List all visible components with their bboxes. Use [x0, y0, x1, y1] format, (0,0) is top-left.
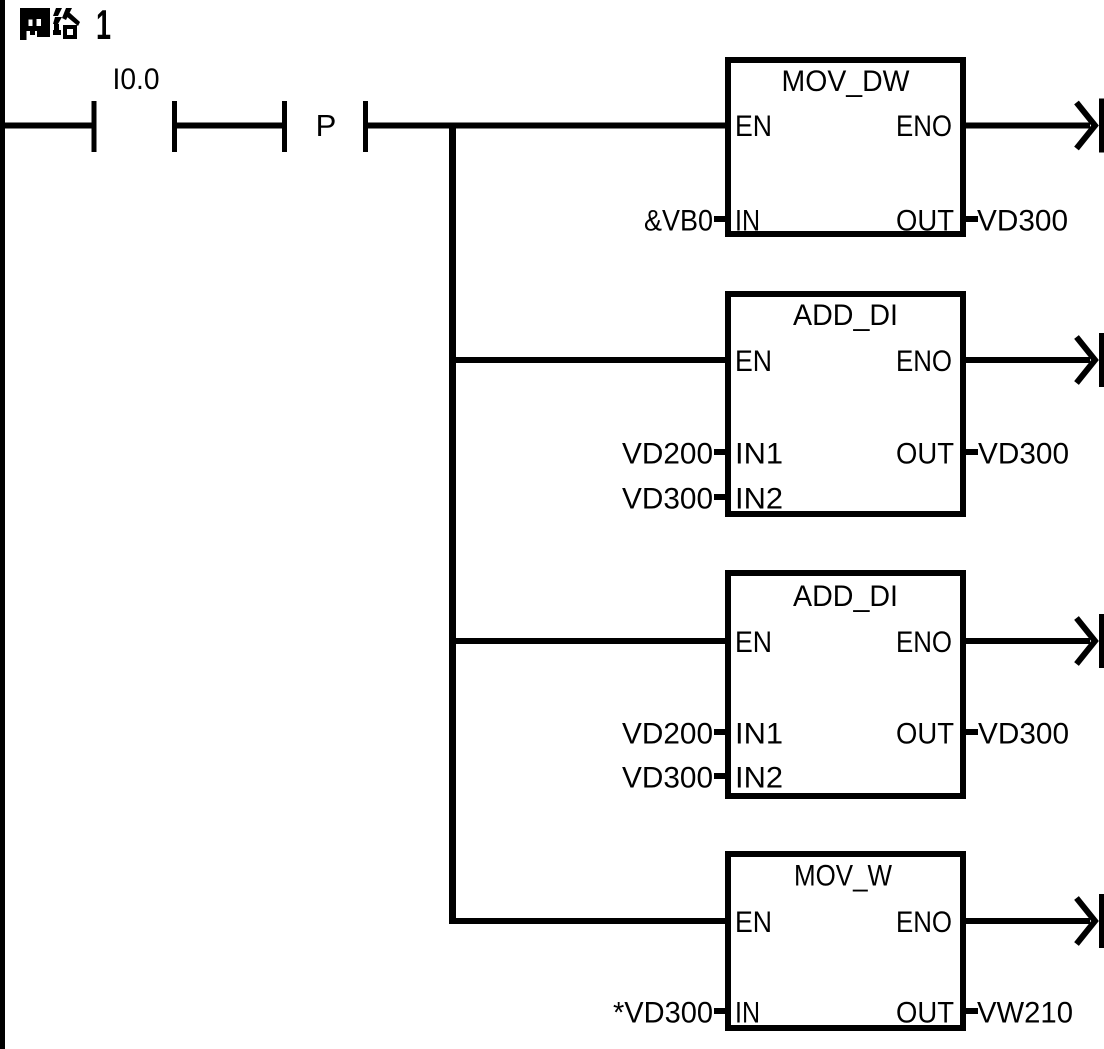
- ENO wire rung 2: [963, 357, 1090, 363]
- contact I0.0 left bar: [92, 101, 97, 152]
- 网 glyph: [20, 8, 50, 40]
- svg-text:&VB0: &VB0: [644, 205, 713, 238]
- output arrow rung 3: [1077, 614, 1104, 668]
- svg-text:EN: EN: [735, 110, 772, 143]
- wire between contacts: [174, 123, 284, 129]
- contact I0.0 right bar: [172, 101, 177, 152]
- svg-text:ADD_DI: ADD_DI: [793, 299, 898, 332]
- svg-text:EN: EN: [735, 906, 772, 939]
- svg-text:VD200: VD200: [622, 718, 713, 751]
- ENO wire rung 1: [963, 123, 1090, 129]
- output arrow rung 4: [1077, 894, 1104, 948]
- output arrow rung 2: [1077, 333, 1104, 387]
- svg-text:VD300: VD300: [977, 205, 1068, 238]
- svg-text:IN: IN: [735, 997, 760, 1030]
- svg-text:VD300: VD300: [978, 438, 1069, 471]
- svg-text:ENO: ENO: [896, 626, 952, 659]
- svg-text:EN: EN: [735, 345, 772, 378]
- svg-text:IN1: IN1: [735, 718, 783, 751]
- svg-text:ENO: ENO: [896, 345, 952, 378]
- svg-text:OUT: OUT: [896, 205, 954, 238]
- branch wire to MOV_W: [449, 918, 731, 924]
- block MOV_DW box: [728, 60, 963, 234]
- ENO wire rung 3: [963, 638, 1090, 644]
- svg-text:VD300: VD300: [622, 483, 713, 516]
- pin tick OUT: [966, 216, 978, 222]
- ENO wire rung 4: [963, 918, 1090, 924]
- pin tick IN: [714, 1008, 725, 1014]
- pin tick IN1: [714, 729, 725, 735]
- branch vertical wire: [449, 123, 456, 925]
- svg-text:IN: IN: [735, 205, 760, 238]
- edge contact P left bar: [282, 101, 287, 152]
- branch wire to ADD_DI 1: [449, 357, 731, 363]
- block ADD_DI 2 box: [728, 573, 963, 796]
- svg-text:ENO: ENO: [896, 110, 952, 143]
- pin tick OUT: [966, 729, 978, 735]
- svg-text:P: P: [316, 108, 337, 143]
- edge contact P right bar: [363, 101, 368, 152]
- svg-text:OUT: OUT: [896, 438, 954, 471]
- 络 glyph: [53, 8, 80, 39]
- svg-text:ADD_DI: ADD_DI: [793, 580, 898, 613]
- svg-text:IN2: IN2: [735, 483, 783, 516]
- svg-text:OUT: OUT: [896, 997, 954, 1030]
- branch wire to ADD_DI 2: [449, 638, 731, 644]
- wire from contact P to block MOV_DW: [365, 123, 731, 129]
- svg-text:VD300: VD300: [978, 718, 1069, 751]
- pin tick IN2: [714, 494, 725, 500]
- network title 网络 1 (drawn glyphs): [20, 1, 111, 48]
- svg-text:OUT: OUT: [896, 718, 954, 751]
- svg-text:MOV_DW: MOV_DW: [782, 65, 911, 98]
- svg-text:IN1: IN1: [735, 438, 783, 471]
- svg-text:VD300: VD300: [622, 762, 713, 795]
- svg-text:VW210: VW210: [977, 997, 1073, 1030]
- svg-text:ENO: ENO: [896, 906, 952, 939]
- pin tick IN: [714, 216, 725, 222]
- output arrow rung 1: [1077, 99, 1104, 153]
- block ADD_DI 1 box: [728, 294, 963, 514]
- left power rail: [0, 0, 5, 1049]
- pin tick IN2: [714, 773, 725, 779]
- pin tick OUT: [966, 1008, 978, 1014]
- rung 1 wire from rail to contact I0.0: [0, 123, 94, 129]
- pin tick IN1: [714, 449, 725, 455]
- svg-text:MOV_W: MOV_W: [794, 860, 893, 893]
- block MOV_W box: [728, 854, 963, 1028]
- svg-text:1: 1: [96, 1, 111, 48]
- svg-text:VD200: VD200: [622, 438, 713, 471]
- svg-text:IN2: IN2: [735, 762, 783, 795]
- svg-text:*VD300: *VD300: [613, 997, 713, 1030]
- pin tick OUT: [966, 449, 978, 455]
- svg-text:EN: EN: [735, 626, 772, 659]
- svg-text:I0.0: I0.0: [113, 63, 160, 96]
